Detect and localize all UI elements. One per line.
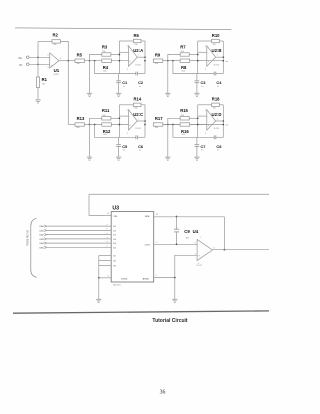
wire: cap feedback bottom with C8 xyxy=(173,125,214,138)
svg-text:VIN: VIN xyxy=(113,216,117,218)
capacitor C4 (series in feedback) xyxy=(213,72,215,76)
svg-text:-: - xyxy=(208,115,209,118)
op-amp U2:A xyxy=(129,46,138,67)
wire: feedback top with R18 xyxy=(198,104,212,106)
wire: branch up to R11 xyxy=(90,118,102,124)
svg-text:20k: 20k xyxy=(155,127,158,129)
svg-text:20k: 20k xyxy=(213,108,216,110)
top rail wire xyxy=(15,28,231,30)
svg-text:20k: 20k xyxy=(103,134,106,136)
svg-text:DGND: DGND xyxy=(121,278,128,280)
wire: R2 feedback top xyxy=(38,40,52,42)
svg-text:1: 1 xyxy=(138,55,139,57)
svg-text:6: 6 xyxy=(107,229,108,231)
wire: U2:D output xyxy=(216,120,224,122)
resistor R5 (series) xyxy=(75,59,85,62)
wire: R18 to output node xyxy=(219,104,223,106)
op-amp U2:D xyxy=(207,110,216,131)
wire: ground drop from node A xyxy=(167,125,169,158)
svg-text:20k: 20k xyxy=(182,134,185,136)
svg-text:2: 2 xyxy=(127,46,128,48)
svg-text:1n: 1n xyxy=(217,150,219,152)
wire: data bus line DB4 xyxy=(47,242,112,244)
svg-text:4: 4 xyxy=(107,237,108,239)
svg-text:Tutorial Circuit: Tutorial Circuit xyxy=(152,318,188,324)
svg-text:TL074: TL074 xyxy=(214,128,219,130)
svg-text:7: 7 xyxy=(107,224,108,226)
junction DGND xyxy=(98,277,100,279)
resistor R6 (feedback) xyxy=(133,39,141,42)
svg-text:AD7524: AD7524 xyxy=(113,284,121,287)
svg-text:1n: 1n xyxy=(123,150,125,152)
wire: ground drop from node A xyxy=(89,61,91,94)
wire: U2:C output xyxy=(137,120,145,122)
svg-text:20k: 20k xyxy=(102,51,105,53)
op-amp U2:B xyxy=(207,46,216,67)
svg-text:C2: C2 xyxy=(138,80,144,85)
IC U3 body xyxy=(111,212,154,282)
wire: U4 output xyxy=(212,249,269,251)
resistor R14 (feedback) xyxy=(133,103,141,106)
resistor R18 (feedback) xyxy=(212,103,220,106)
svg-text:2: 2 xyxy=(156,275,157,277)
svg-text:1n: 1n xyxy=(201,150,203,152)
wire: AGND stub xyxy=(154,277,175,279)
svg-text:5: 5 xyxy=(107,233,108,235)
resistor R1 xyxy=(36,77,39,88)
wire: control tie vertical to DGND xyxy=(98,256,100,278)
ground (R1) xyxy=(35,99,40,101)
svg-text:R9: R9 xyxy=(155,52,161,57)
svg-text:C5: C5 xyxy=(122,144,128,149)
wire: ground drop from node A xyxy=(167,61,169,94)
svg-text:R11: R11 xyxy=(102,108,110,113)
wire: ground drop from node A xyxy=(89,125,91,158)
svg-text:IN+: IN+ xyxy=(19,58,23,60)
junction RFB feedback at output xyxy=(224,249,226,251)
wire: input to R9 xyxy=(153,60,223,62)
svg-text:2: 2 xyxy=(195,242,196,244)
svg-text:FROM PIC I/O: FROM PIC I/O xyxy=(27,230,30,246)
resistor R13 (series) xyxy=(75,123,85,126)
resistor R8 (parallel bottom) xyxy=(180,59,190,62)
resistor R10 (feedback) xyxy=(212,39,220,42)
wire: R15 to node B xyxy=(189,117,198,119)
wire: R2 to output xyxy=(61,41,69,60)
svg-text:C4: C4 xyxy=(216,80,222,85)
svg-text:R1: R1 xyxy=(42,77,48,82)
input terminal J2 xyxy=(26,63,29,66)
svg-text:U3: U3 xyxy=(112,205,119,211)
resistor R9 (series) xyxy=(153,59,163,62)
svg-text:1n: 1n xyxy=(217,86,219,88)
svg-text:20k: 20k xyxy=(155,63,158,65)
brace for PIC port bus xyxy=(31,218,37,277)
svg-text:LF411: LF411 xyxy=(53,74,58,76)
svg-text:U4: U4 xyxy=(193,229,199,234)
svg-text:R7: R7 xyxy=(180,44,186,49)
svg-text:R14: R14 xyxy=(134,97,142,102)
wire: output node vertical xyxy=(222,105,224,138)
svg-text:20k: 20k xyxy=(181,51,184,53)
ground (below C1) xyxy=(116,92,121,94)
wire: input to R5 xyxy=(68,60,75,62)
svg-text:1: 1 xyxy=(138,118,139,120)
resistor R7 (parallel top) xyxy=(180,53,189,56)
op-amp U1 xyxy=(50,53,59,68)
wire: U4 plus input to ground xyxy=(175,255,197,277)
capacitor C7 (to ground) xyxy=(196,137,198,144)
svg-text:20k: 20k xyxy=(181,115,184,117)
svg-text:20k: 20k xyxy=(103,70,106,72)
ground (DGND) xyxy=(96,298,101,300)
wire: input to R17 xyxy=(153,124,223,126)
wire: R3 to node B xyxy=(111,54,120,56)
wire: DGND down to ground xyxy=(98,278,100,300)
svg-text:C1: C1 xyxy=(122,80,128,85)
svg-text:TL071: TL071 xyxy=(196,265,203,267)
terminal arrow DB5 xyxy=(44,246,46,248)
wire: data bus line DB2 xyxy=(47,234,112,236)
svg-text:R4: R4 xyxy=(103,65,109,70)
figure separator rule xyxy=(13,311,269,313)
svg-text:+: + xyxy=(198,254,200,258)
wire: DGND stub xyxy=(99,277,111,279)
capacitor C2 (series in feedback) xyxy=(135,72,137,76)
terminal arrow DB1 xyxy=(44,229,46,231)
svg-text:U2:A: U2:A xyxy=(133,48,143,53)
wire: main line through node A xyxy=(163,60,207,62)
svg-text:AGND: AGND xyxy=(143,277,150,280)
wire: data bus line DB0 xyxy=(47,225,112,227)
svg-text:-: - xyxy=(51,57,52,60)
wire: cap feedback bottom with C2 xyxy=(95,61,136,74)
resistor R16 (parallel bottom) xyxy=(180,123,190,126)
svg-text:3: 3 xyxy=(205,133,206,135)
svg-text:3: 3 xyxy=(205,69,206,71)
svg-text:R3: R3 xyxy=(102,44,108,49)
capacitor C6 (series in feedback) xyxy=(135,135,137,139)
wire: control pin stub 2 xyxy=(99,260,111,262)
ground (below C3) xyxy=(194,92,199,94)
junction: U1 output node xyxy=(67,60,69,62)
svg-text:R6: R6 xyxy=(134,33,140,38)
node A junction xyxy=(167,124,169,126)
wire: feedback top with R6 xyxy=(119,40,133,42)
svg-text:3: 3 xyxy=(107,241,108,243)
wire: control pin stub 3 xyxy=(99,265,111,267)
wire: AGND to ground xyxy=(174,278,176,300)
wire: OUT to U4 inverting input xyxy=(154,243,197,245)
svg-text:R15: R15 xyxy=(180,108,188,113)
wire: output node vertical xyxy=(144,105,146,138)
capacitor C3 (to ground) xyxy=(196,74,198,81)
wire: R14 to output node xyxy=(141,104,145,106)
terminal arrow DB4 xyxy=(44,242,46,244)
pin 15 VIN stub xyxy=(105,214,111,216)
svg-text:OUT1: OUT1 xyxy=(145,245,152,247)
wire: U2:B output xyxy=(216,56,224,58)
wire: branch up to R15 xyxy=(168,118,180,124)
svg-text:IN-: IN- xyxy=(19,65,22,67)
svg-text:U2:B: U2:B xyxy=(212,48,222,53)
terminal arrow DB2 xyxy=(44,233,46,235)
wire: vertical to second row xyxy=(67,61,69,125)
wire: terminal 1 to U1 xyxy=(29,56,50,58)
svg-text:20k: 20k xyxy=(213,44,216,46)
svg-text:20k: 20k xyxy=(76,63,79,65)
terminal arrow DB0 xyxy=(44,225,46,227)
svg-text:1n: 1n xyxy=(139,150,141,152)
wire: R7 to node B xyxy=(189,54,198,56)
svg-text:10k: 10k xyxy=(42,83,45,85)
svg-text:DB0: DB0 xyxy=(40,226,45,228)
resistor R12 (parallel bottom) xyxy=(102,123,112,126)
capacitor C1 (to ground) xyxy=(118,74,120,81)
svg-text:+: + xyxy=(129,124,131,127)
svg-text:R2: R2 xyxy=(53,32,59,37)
terminal arrow DB3 xyxy=(44,238,46,240)
capacitor C8 (series in feedback) xyxy=(213,135,215,139)
svg-text:C6: C6 xyxy=(138,144,144,149)
svg-text:1: 1 xyxy=(217,55,218,57)
svg-text:2: 2 xyxy=(205,46,206,48)
wire: terminal 2 to U1 xyxy=(29,63,50,65)
wire: R10 to output node xyxy=(219,40,223,42)
ground (node A) xyxy=(165,92,170,94)
svg-text:20k: 20k xyxy=(134,44,137,46)
junction C9 top xyxy=(176,216,178,218)
svg-text:18: 18 xyxy=(156,214,158,216)
svg-text:1: 1 xyxy=(156,242,157,244)
svg-text:TL074: TL074 xyxy=(135,128,140,130)
svg-text:R13: R13 xyxy=(77,116,85,121)
ground (below C7) xyxy=(194,156,199,158)
node A junction xyxy=(89,60,91,62)
resistor R11 (parallel top) xyxy=(102,117,111,120)
svg-text:1n: 1n xyxy=(201,86,203,88)
svg-text:1: 1 xyxy=(217,118,218,120)
svg-text:3: 3 xyxy=(127,133,128,135)
wire: node B vertical xyxy=(197,105,199,138)
svg-text:2: 2 xyxy=(205,110,206,112)
svg-text:15: 15 xyxy=(107,213,109,215)
wire: data bus line DB3 xyxy=(47,238,112,240)
svg-text:20k: 20k xyxy=(53,44,56,46)
svg-text:-: - xyxy=(198,243,199,247)
svg-text:C9: C9 xyxy=(184,229,190,234)
wire: control pin stub 1 xyxy=(99,255,111,257)
svg-text:R16: R16 xyxy=(181,129,189,134)
resistor R15 (parallel top) xyxy=(180,117,189,120)
svg-text:C7: C7 xyxy=(201,144,206,149)
svg-text:2: 2 xyxy=(127,110,128,112)
resistor R3 (parallel top) xyxy=(102,53,111,56)
wire: cap feedback bottom with C4 xyxy=(173,61,214,74)
input terminal J1 xyxy=(26,56,29,59)
svg-text:3: 3 xyxy=(48,67,49,69)
svg-text:R8: R8 xyxy=(181,65,187,70)
wire: RFB feedback vertical xyxy=(223,217,225,250)
wire: rail down to VIN xyxy=(89,194,105,215)
wire: U1 output xyxy=(59,60,68,62)
svg-text:2: 2 xyxy=(48,55,49,57)
svg-text:6: 6 xyxy=(213,247,214,249)
svg-text:out: out xyxy=(225,60,228,63)
op-amp U2:B input stubs xyxy=(198,51,207,53)
svg-text:20k: 20k xyxy=(182,70,185,72)
wire: input to R13 xyxy=(68,124,75,126)
op-amp U2:C xyxy=(129,110,138,131)
wire: R6 to output node xyxy=(141,40,145,42)
ground (AGND) xyxy=(172,298,177,300)
wire: node B vertical xyxy=(118,41,120,74)
svg-text:TL074: TL074 xyxy=(135,64,140,66)
svg-text:R12: R12 xyxy=(103,129,111,134)
op-amp U2:D input stubs xyxy=(198,115,207,117)
svg-text:3: 3 xyxy=(127,69,128,71)
svg-text:U2:D: U2:D xyxy=(212,112,222,117)
junction AGND xyxy=(174,277,176,279)
ground (node A) xyxy=(87,92,92,94)
svg-text:6: 6 xyxy=(60,58,61,60)
svg-text:20k: 20k xyxy=(76,127,79,129)
svg-text:R5: R5 xyxy=(77,52,83,57)
ground (node A) xyxy=(165,156,170,158)
wire: R1 to ground xyxy=(37,88,39,100)
wire: R11 to node B xyxy=(111,117,120,119)
svg-text:-: - xyxy=(129,115,130,118)
wire: node B vertical xyxy=(197,41,199,74)
svg-text:4: 4 xyxy=(198,263,199,265)
wire: RFB to feedback xyxy=(154,216,225,218)
svg-text:DB3: DB3 xyxy=(40,239,45,241)
svg-text:U1: U1 xyxy=(54,68,60,73)
svg-text:+: + xyxy=(129,60,131,63)
svg-text:20k: 20k xyxy=(102,115,105,117)
svg-text:R18: R18 xyxy=(212,97,220,102)
svg-text:DB4: DB4 xyxy=(40,243,45,245)
wire: cap feedback bottom with C6 xyxy=(95,125,136,138)
svg-text:-: - xyxy=(208,52,209,55)
svg-text:C3: C3 xyxy=(201,80,207,85)
svg-text:RFB: RFB xyxy=(145,216,150,218)
wire: main line through node A xyxy=(163,124,207,126)
svg-text:out: out xyxy=(225,124,228,127)
svg-text:R10: R10 xyxy=(212,33,220,38)
svg-text:39p: 39p xyxy=(186,237,190,239)
svg-text:2: 2 xyxy=(107,246,108,248)
svg-text:DB5: DB5 xyxy=(40,247,45,249)
wire: R2 feedback left vertical xyxy=(37,41,39,77)
svg-text:TL074: TL074 xyxy=(214,64,219,66)
svg-text:1n: 1n xyxy=(139,86,141,88)
wire: output node vertical xyxy=(144,41,146,74)
ground (node A) xyxy=(87,156,92,158)
wire: U2:A output xyxy=(137,56,145,58)
capacitor C5 (to ground) xyxy=(118,137,120,144)
svg-text:3: 3 xyxy=(108,275,109,277)
resistor R17 (series) xyxy=(153,123,163,126)
wire: output node vertical xyxy=(222,41,224,74)
capacitor C9 xyxy=(176,217,178,230)
resistor R2 (feedback) xyxy=(52,40,61,43)
ground (below C5) xyxy=(116,156,121,158)
wire: data bus line DB5 xyxy=(47,246,112,248)
wire: main line through node A xyxy=(85,60,129,62)
wire: feedback top with R14 xyxy=(119,104,133,106)
svg-text:C8: C8 xyxy=(216,144,222,149)
svg-text:7: 7 xyxy=(200,237,201,239)
resistor R4 (parallel bottom) xyxy=(102,59,112,62)
top rail wire (DAC section) xyxy=(89,193,269,195)
wire: node B vertical xyxy=(118,105,120,138)
wire: feedback top with R10 xyxy=(198,40,212,42)
svg-text:R17: R17 xyxy=(155,116,163,121)
wire: branch up to R7 xyxy=(168,55,180,61)
svg-text:20k: 20k xyxy=(134,108,137,110)
node A junction xyxy=(89,124,91,126)
node A junction xyxy=(167,60,169,62)
wire: branch up to R3 xyxy=(90,55,102,61)
node junction on input wires xyxy=(37,56,39,58)
junction C9 bottom xyxy=(176,243,178,245)
svg-text:U2:C: U2:C xyxy=(133,112,143,117)
svg-text:DB1: DB1 xyxy=(40,230,45,232)
op-amp U4 xyxy=(197,239,212,260)
svg-text:DB2: DB2 xyxy=(40,235,45,237)
svg-text:36: 36 xyxy=(160,390,166,396)
op-amp U2:C input stubs xyxy=(119,115,128,117)
wire: data bus line DB1 xyxy=(47,229,112,231)
wire: main line through node A xyxy=(85,124,129,126)
op-amp U2:A input stubs xyxy=(119,51,128,53)
svg-text:-: - xyxy=(129,52,130,55)
svg-text:1n: 1n xyxy=(123,86,125,88)
